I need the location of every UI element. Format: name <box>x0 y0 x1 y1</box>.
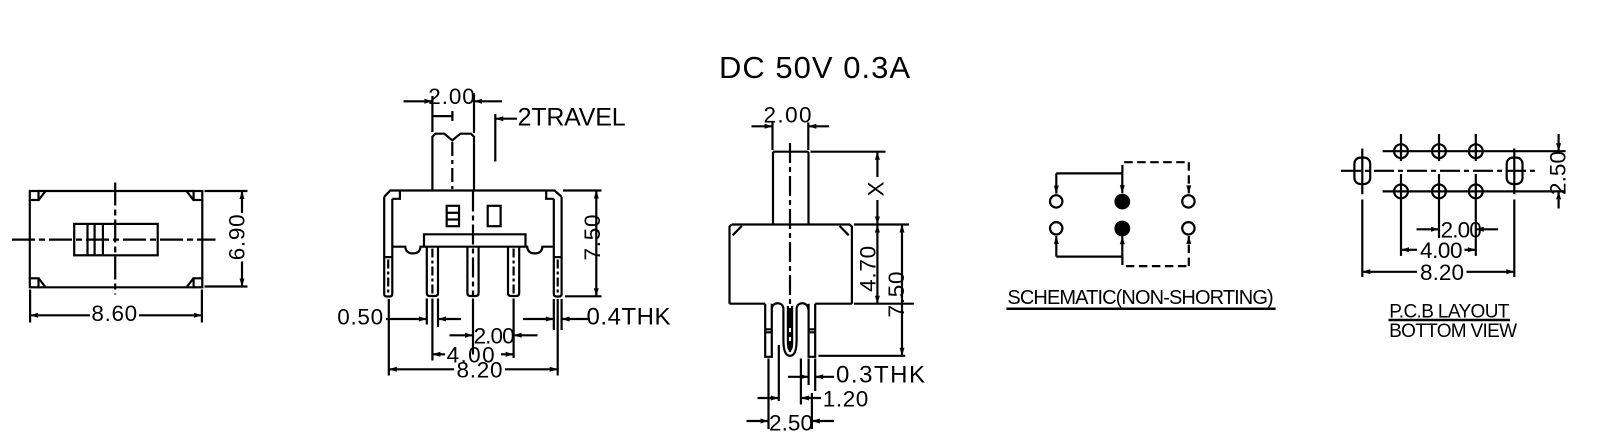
body bottom edge left with notch dip <box>392 247 424 254</box>
terminal pin 1 <box>427 247 438 296</box>
dim 2.50 pcb arrows <box>1557 134 1559 151</box>
svg-text:2.00: 2.00 <box>428 84 475 109</box>
label underline <box>1006 307 1275 310</box>
horizontal centerline <box>12 239 216 241</box>
corner tab square BL <box>30 278 39 287</box>
row2 crosshair horizontal <box>1383 190 1566 192</box>
pad hole row1 col2 <box>1432 144 1446 158</box>
dim 7.50 ext top <box>563 189 602 191</box>
svg-text:2TRAVEL: 2TRAVEL <box>518 103 626 131</box>
dim 7.50 line side <box>901 225 903 356</box>
dim 4.00 pcb line <box>1401 249 1417 251</box>
dim 7.50 line <box>595 191 597 297</box>
knob centerline <box>451 142 453 189</box>
common pole bottom (filled) <box>1116 222 1130 236</box>
corner tab square TR <box>194 191 203 200</box>
body bottom edge right with notch dip <box>526 247 554 254</box>
body top ext line <box>854 223 909 225</box>
tab top notch right <box>546 191 554 199</box>
wire dashed bottom (position 2) <box>1122 257 1188 267</box>
corner chamfer mark right <box>840 226 849 235</box>
slider knob (top view) <box>74 224 158 255</box>
body bottom edge segments <box>730 303 852 305</box>
vertical centerline <box>114 183 116 295</box>
dim 2.50 arrows <box>747 420 769 422</box>
wire dashed top (position 2) <box>1122 162 1188 173</box>
dim 2.00 pcb arrows <box>1417 228 1440 230</box>
dim 8.60 line <box>30 314 90 316</box>
pad hole row2 col1 <box>1394 185 1408 199</box>
dim 0.4THK ext lines <box>553 299 555 330</box>
svg-text:2.00: 2.00 <box>764 103 812 128</box>
corner bend arc BL <box>39 279 45 287</box>
2TRAVEL leader line <box>494 114 496 162</box>
svg-text:BOTTOM VIEW: BOTTOM VIEW <box>1389 321 1517 342</box>
svg-text:1.20: 1.20 <box>823 387 869 412</box>
dim 2.00 knob arrows <box>404 100 433 102</box>
left mounting tab outer edge <box>384 197 392 297</box>
terminal 3 top-right (open) <box>1182 195 1194 207</box>
common pole top (filled) <box>1116 195 1130 209</box>
dim 2.00 side ext lines <box>771 123 773 151</box>
svg-text:DC 50V 0.3A: DC 50V 0.3A <box>719 50 910 85</box>
leg bottom ext line <box>818 355 905 357</box>
label underline <box>1389 319 1511 322</box>
dim 8.20 pcb line <box>1362 271 1417 273</box>
wire solid top (position 1) <box>1056 172 1122 174</box>
middle contact hairpin outer outline <box>772 303 808 356</box>
pcb centerline horizontal <box>1341 170 1539 172</box>
right leg tick marks <box>809 329 816 332</box>
corner bend arc TR <box>187 192 193 200</box>
slot left vertical tick / ext <box>1361 149 1363 278</box>
corner bend arc BR <box>187 279 193 287</box>
left tab pin centerline <box>387 260 389 294</box>
side view centerline <box>789 143 791 352</box>
travel reference mark <box>432 111 452 121</box>
dim 0.50 ext lines <box>426 299 428 325</box>
tab top notch left <box>392 191 400 199</box>
terminal base plate <box>424 234 526 246</box>
pad hole row1 col3 <box>1469 144 1483 158</box>
svg-text:SCHEMATIC(NON-SHORTING): SCHEMATIC(NON-SHORTING) <box>1007 287 1273 309</box>
dim 0.3THK arrows <box>788 376 809 378</box>
body (side view) with chamfered corners <box>730 225 852 304</box>
dim 8.20 line <box>389 368 454 370</box>
row2 vertical ticks / ext lines <box>1401 174 1476 256</box>
row1 crosshair horizontal <box>1383 150 1566 152</box>
svg-text:8.60: 8.60 <box>91 301 137 326</box>
dim 1.20 ext lines <box>778 345 780 401</box>
svg-text:2.50: 2.50 <box>1546 151 1571 195</box>
svg-text:0.4THK: 0.4THK <box>587 303 671 330</box>
svg-text:2.50: 2.50 <box>769 411 813 436</box>
dim 6.90 line <box>241 191 243 213</box>
left leg tick marks <box>765 329 772 332</box>
mounting slot right <box>1507 158 1523 184</box>
switch body outline (top view) <box>30 191 203 287</box>
slot right vertical tick / ext <box>1513 149 1515 278</box>
dim 0.4THK arrows <box>523 318 554 320</box>
left leg (side view) <box>765 304 772 357</box>
dim 8.60 extension left <box>29 290 31 323</box>
svg-text:6.90: 6.90 <box>224 214 249 260</box>
dim 8.20 ext lines <box>388 299 390 376</box>
terminal 4 bottom-left (open) <box>1050 222 1062 234</box>
svg-text:8.20: 8.20 <box>1420 260 1464 285</box>
dim 4.70 line <box>876 225 878 304</box>
body window left (slider) <box>447 206 459 226</box>
svg-text:4.70: 4.70 <box>856 246 881 292</box>
slider knob (front view) <box>432 134 474 191</box>
terminal 6 bottom-right (open) <box>1182 222 1194 234</box>
dim 2.00 pins arrows <box>450 334 474 336</box>
mounting slot left <box>1354 158 1370 184</box>
right mounting tab outer edge <box>554 197 562 297</box>
dim 8.60 extension right <box>201 290 203 323</box>
pad hole row1 col1 <box>1394 144 1408 158</box>
svg-text:X: X <box>864 181 889 196</box>
svg-text:0.3THK: 0.3THK <box>836 361 925 388</box>
dim 2.00 side arrows <box>752 125 773 127</box>
terminal pin 3 <box>508 247 519 296</box>
dim X line <box>876 152 878 177</box>
dim 2.00 pins ext lines <box>472 299 474 355</box>
right tab pin centerline <box>557 260 559 294</box>
terminal 1 top-left (open) <box>1050 195 1062 207</box>
row1 vertical ticks <box>1401 134 1476 161</box>
middle contact hairpin inner slot <box>788 306 792 350</box>
dim 2.00 knob ext left <box>431 96 433 132</box>
svg-text:7.50: 7.50 <box>884 272 909 318</box>
right leg (side view) <box>809 304 816 357</box>
dim 0.50 arrows <box>386 318 427 320</box>
knob (side view) <box>773 152 809 224</box>
knob serration line 1 <box>86 224 88 255</box>
corner bend arc TL <box>39 192 45 200</box>
dim 4.00 ext lines <box>431 299 433 361</box>
dim 2.50 ext lines <box>767 359 769 430</box>
main centerline front view <box>472 192 474 297</box>
body bottom ext line <box>854 303 914 305</box>
svg-text:0.50: 0.50 <box>337 305 383 330</box>
left tab seam tick <box>384 256 392 258</box>
terminal pin 2 <box>467 247 478 296</box>
dim 2.00 knob ext right <box>473 93 475 133</box>
wire solid bottom (position 1) <box>1056 256 1122 258</box>
body window right <box>488 206 501 226</box>
knob serration line 2 <box>93 224 95 255</box>
body top edge with corner chamfers <box>384 191 561 197</box>
dim 6.90 extension bottom <box>205 285 248 287</box>
svg-text:7.50: 7.50 <box>580 215 605 261</box>
pad hole row2 col3 <box>1469 185 1483 199</box>
dim 7.50 ext bottom <box>565 295 602 297</box>
svg-text:8.20: 8.20 <box>457 357 503 382</box>
corner tab square TL <box>30 191 39 200</box>
corner tab square BR <box>194 278 203 287</box>
pad hole row2 col2 <box>1432 185 1446 199</box>
dim 6.90 extension top <box>205 190 248 192</box>
dim X ext (knob top) <box>811 151 886 153</box>
right tab seam tick <box>554 256 562 258</box>
dim 0.3THK ext lines <box>807 359 809 386</box>
dim 4.00 line <box>432 353 445 355</box>
corner chamfer mark left <box>733 226 742 235</box>
knob serration line 3 <box>102 224 104 255</box>
dim 1.20 arrows <box>758 397 779 399</box>
